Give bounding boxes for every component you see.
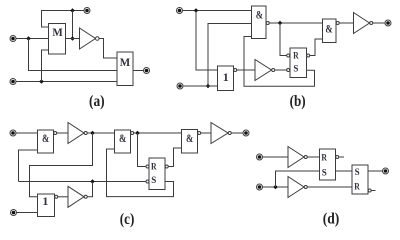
wire M1 output to inverter [66, 38, 80, 40]
wire D-RS1 S-row to latch2 S input [336, 170, 353, 172]
wire M2 output to right terminal [133, 70, 143, 72]
svg-text:(a): (a) [89, 93, 105, 110]
wire C-AND2 output to AND3 input1 [134, 132, 182, 134]
wire B-J3 down to R input [280, 23, 287, 56]
inverter C-N1 [68, 123, 84, 144]
bubble C-N2 [228, 132, 231, 135]
svg-text:&: & [119, 131, 126, 145]
wire D-IN1 to inverter D-N1 [263, 156, 288, 158]
junction A-J4 [39, 79, 44, 84]
wire B-N2 to output terminal [373, 22, 385, 24]
bubble R input [287, 54, 290, 57]
gate C-AND3 [182, 130, 198, 154]
svg-text:M: M [120, 55, 130, 69]
wire RS2 lower feedback to AND2 input2 [107, 149, 174, 197]
inverter C-N3 [68, 186, 84, 207]
svg-text:M: M [52, 25, 62, 39]
wire D-N2 to latch2 R input [307, 186, 352, 188]
wire A-IN2 to M2 input3 [16, 81, 117, 83]
svg-text:1: 1 [223, 70, 229, 84]
bubble OR1 output [234, 69, 237, 72]
terminal A-IN1 [10, 36, 16, 42]
svg-text:&: & [42, 131, 49, 145]
wire B-IN2 to OR1 input2 [183, 85, 217, 87]
bubble D-N2 [304, 186, 307, 189]
junction A-J3 [70, 36, 75, 41]
svg-text:&: & [256, 8, 263, 22]
bubble AND2 output [336, 22, 339, 25]
wire B-N1 to S input [275, 69, 287, 71]
bubble D-RS1 output [336, 156, 339, 159]
latch RS1 [290, 48, 307, 78]
wire C-N3 up to S rail junction [87, 182, 92, 197]
bubble S input [287, 69, 290, 72]
svg-text:&: & [186, 131, 193, 145]
svg-text:R: R [321, 152, 327, 162]
bubble RS2 output [165, 165, 168, 168]
wire D-RS2 inverted output stub [371, 190, 375, 192]
wire A-J4 up to M1 input3 [42, 50, 49, 82]
svg-text:&: & [325, 21, 332, 35]
bubble RS1 output [307, 54, 310, 57]
gate AND1 [252, 6, 267, 39]
bubble C-N3 [84, 195, 87, 198]
wire A-IN1 to M1 input2 [16, 38, 48, 40]
wire B-J1 down to OR1 input1 [196, 11, 218, 71]
wire D-RS1 output stub [339, 156, 344, 158]
wire C-AND3 to inverter C-N2 [201, 132, 211, 134]
wire AND1 input2 down to S rail [19, 150, 38, 182]
terminal A-OUT-TOP [84, 8, 90, 14]
bubble B-N2 [370, 22, 373, 25]
svg-text:S: S [322, 167, 327, 177]
mux M1 [49, 24, 66, 55]
wire M1 input1 up and over to top output [42, 11, 84, 28]
terminal A-IN2 [10, 79, 16, 85]
gate OR1 "1" [218, 66, 234, 91]
terminal C-OUT [243, 130, 249, 136]
bubble AND1 output [266, 22, 269, 25]
wire RS1 output to AND2 input2 [310, 39, 323, 56]
terminal D-IN2 [257, 184, 263, 190]
junction C-J1 [90, 131, 95, 136]
inverter B-N1 [255, 60, 272, 81]
junction D-J1 [273, 185, 278, 190]
latch D-RS2 [352, 165, 368, 194]
inverter C-N2 [211, 123, 228, 144]
wire AND1 input2 from D node [208, 24, 252, 87]
bubble C-R input [146, 165, 149, 168]
bubble D-RS2 inverted output [368, 189, 371, 192]
wire C-N2 to output terminal [231, 132, 242, 134]
bubble B-N1 [272, 69, 275, 72]
gate AND2 [323, 19, 337, 43]
svg-text:(c): (c) [120, 211, 135, 228]
mux M2 [117, 52, 133, 86]
bubble C-AND3 output [198, 132, 201, 135]
svg-text:R: R [354, 181, 360, 191]
wire D-RS2 output to terminal [368, 170, 382, 172]
terminal B-IN1 [177, 8, 183, 14]
bubble C-N1 [84, 132, 87, 135]
terminal C-IN1 [10, 130, 16, 136]
terminal D-IN1 [257, 154, 263, 160]
wire C-IN1 to AND1 input1 [16, 132, 37, 134]
bubble C-AND1 output [54, 132, 57, 135]
wire S rail to latch S input [19, 181, 146, 183]
junction A-J1 [26, 36, 31, 41]
junction C-J3 [90, 179, 95, 184]
wire D-N1 to latch1 R input [307, 156, 319, 158]
wire C-J1 down over to OR1 input1 [30, 133, 93, 197]
wire C-N1 to AND2 input1 [87, 132, 114, 134]
latch D-RS1 [320, 149, 336, 180]
terminal A-OUT [144, 68, 150, 74]
latch RS2 [149, 158, 165, 190]
terminal B-OUT [385, 20, 391, 26]
wire C-OR1 to inverter C-N3 [58, 196, 68, 198]
bubble C-OR1 output [55, 195, 58, 198]
wire C-AND1 to inverter C-N1 [57, 132, 68, 134]
terminal C-IN2 [11, 210, 17, 216]
wire AND2 to inverter B-N2 [339, 22, 353, 24]
svg-text:S: S [355, 167, 360, 177]
wire A-J1 down to M2 input2 [29, 39, 118, 71]
wire D-IN2 to inverter D-N2 [263, 186, 288, 188]
terminal D-OUT [383, 168, 389, 174]
wire C-IN2 to OR1 input2 [17, 212, 38, 214]
bubble A-N1 [96, 37, 100, 41]
gate C-AND1 [38, 130, 54, 153]
wire A-J2 down to M1 output node [72, 11, 74, 39]
svg-text:1: 1 [42, 194, 48, 208]
svg-text:R: R [293, 51, 299, 61]
junction C-J2 [135, 131, 140, 136]
svg-text:R: R [151, 162, 157, 172]
svg-text:S: S [293, 63, 298, 73]
inverter B-N2 [354, 13, 370, 34]
bubble C-AND2 output [131, 132, 134, 135]
junction B-J1 [194, 8, 199, 13]
svg-text:S: S [151, 175, 156, 185]
bubble D-N1 [304, 156, 307, 159]
wire AND1 output to AND2 input1 [269, 22, 322, 24]
junction B-J2 [206, 84, 211, 89]
wire B-IN1 to AND1 input1 [183, 10, 252, 12]
bubble C-S input [146, 180, 149, 183]
wire OR1 to inverter B-N1 [237, 69, 255, 71]
gate C-OR1 "1" [38, 194, 55, 217]
wire C-J2 down to R input [138, 133, 146, 167]
inverter D-N1 [288, 147, 304, 168]
junction A-J2 [70, 8, 75, 13]
wire D-J1 up to latch1 S input [276, 171, 320, 187]
terminal B-IN2 [177, 83, 183, 89]
junction B-J3 [278, 21, 283, 26]
gate C-AND2 [115, 130, 131, 153]
inverter A-N1 [80, 28, 96, 49]
wire AND1 input3 feedback from latch [244, 37, 315, 87]
svg-text:(d): (d) [323, 211, 340, 228]
wire RS2 output to AND3 input2 [168, 148, 181, 167]
svg-text:(b): (b) [290, 93, 306, 110]
wire inverter to M2 input1 [99, 39, 117, 59]
inverter D-N2 [288, 177, 304, 198]
